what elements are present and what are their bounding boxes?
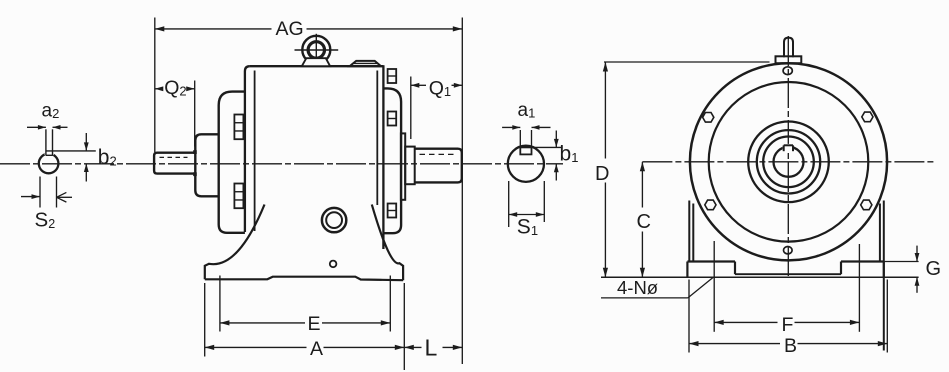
foot top G extension line [884,261,919,263]
wire horizontal centerline of front view [642,161,934,163]
extension line S1 left [508,181,510,227]
small hole in base web [330,261,337,268]
dimension S2 [21,192,72,231]
hub circle mid [757,130,820,193]
dimension L [404,334,462,360]
extension line B left [688,280,690,353]
bolt block left lower [234,184,243,209]
left shaft (input) [154,153,195,174]
right foot (front view) [841,262,884,278]
motor body inner line right [376,71,378,206]
extension line AG left [154,18,156,153]
extension line E left [219,276,221,332]
extension line A left [204,283,206,357]
extension line Q2 right [194,81,196,147]
motor body frame (side view) [245,65,384,249]
svg-text:AG: AG [276,18,304,40]
dimension E [220,313,390,335]
hex bolt lower-right [861,200,872,210]
right foot gusset (front view) [880,201,884,351]
svg-text:G: G [926,258,942,280]
extension line E right [389,276,391,332]
hex bolt upper-left [703,113,714,123]
base recess line (front view) [735,273,841,275]
right shaft (output) [415,149,462,183]
left foot (front view) [687,262,735,278]
hex bolt upper-right [862,112,873,122]
shaft bore circle [774,147,804,177]
dimension B [689,335,887,357]
drain plug boss [322,208,346,232]
right bearing retainer plate [401,133,405,199]
extension line A right [403,283,405,370]
label 4-N-phi with leader [601,277,714,298]
extension line B right [886,280,888,353]
shaft section S2 circle [39,154,59,174]
front flange inner rim circle [709,82,869,242]
svg-text:B: B [784,335,797,357]
left shaft ring groove top [194,151,197,154]
bolt block left upper [234,115,243,140]
hex bolt lower-left [705,200,716,210]
svg-text:E: E [308,313,321,335]
dimension b2 reference line [46,150,96,152]
base bottom outline [205,277,403,281]
wire horizontal centerline of side view [0,163,563,165]
dimension C [637,162,651,277]
dimension S1 [509,212,545,238]
right shaft keyway hidden line [420,153,457,155]
hub circle outer [748,122,829,203]
extension line F left [713,241,715,332]
bolt block right lower [388,204,397,218]
left end-bell [219,92,245,233]
bolt block right top [388,69,397,83]
extension line D top [604,61,770,63]
extension line S2 right [56,177,58,208]
oil fill cap (side view) [350,61,381,66]
dimension F [714,314,859,336]
dimension a2 [27,101,68,130]
eyebolt (side view) [295,34,339,64]
dimension Q1 [411,78,463,100]
svg-text:D: D [595,163,609,185]
right shaft hub [405,147,415,185]
dimension G [915,246,941,293]
left bearing boss [195,134,219,196]
base left flare [205,205,265,280]
base bottom line with extensions [601,276,919,278]
extension line AG right / L right [461,18,463,365]
svg-text:C: C [637,211,651,233]
base right flare [372,205,403,281]
shaft section S1 key [520,147,531,154]
left foot gusset (front view) [689,201,693,262]
bore keyway slot [783,144,794,151]
motor body inner line left [254,71,256,232]
bolt block right upper [388,112,397,126]
svg-text:L: L [425,334,438,360]
bolt hole top [783,67,792,75]
shaft section S2 keyway [45,129,54,155]
dimension b2 [84,133,117,182]
dimension Q2 [155,77,195,99]
bolt hole bottom [784,247,793,254]
wire vertical centerline of front view [787,36,789,278]
extension line S1 right [543,181,545,222]
svg-text:F: F [782,314,794,336]
dimension b1 reference line [532,146,563,148]
extension line Q1 left [410,77,412,140]
svg-text:4-Nø: 4-Nø [617,277,658,298]
eyebolt base pad (front view) [776,56,802,63]
eyebolt base pad (side view) [302,58,330,66]
front flange outer circle [690,63,887,260]
extension line S2 left [39,177,41,208]
svg-text:A: A [310,338,323,360]
dimension A [205,338,405,360]
eyebolt shank (front view) [784,38,793,58]
shaft section S1 circle [508,146,544,182]
left shaft ring groove bottom [194,173,197,176]
dimension AG [155,18,463,40]
left shaft keyway hidden line [160,156,188,158]
hub circle inner [763,137,814,188]
right end-bell [383,88,401,233]
dimension b1 [554,131,579,181]
extension line F right [858,244,860,332]
dimension D [595,62,609,277]
dimension a1 [502,100,550,146]
